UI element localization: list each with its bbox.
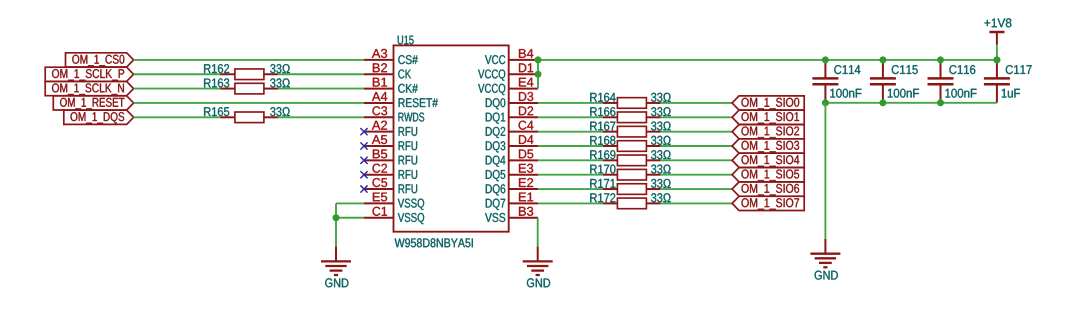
pin D5 DQ4 (right side)	[509, 159, 538, 161]
wire OM_1_CS0 to pin A3	[134, 59, 364, 61]
pin D1 VCCQ (right side)	[509, 73, 538, 75]
wire R163 to pin B1	[278, 88, 364, 90]
pin number A4	[372, 92, 387, 101]
resistor R164 33ohm	[603, 102, 618, 104]
wire +1V8 power to rail	[996, 45, 998, 60]
wire OM_1_SCLK_P to R162	[134, 73, 221, 75]
resistor R167 33ohm	[603, 131, 618, 133]
wire R169 to OM_1_SIO4	[660, 159, 732, 161]
pin number E4	[519, 78, 533, 87]
junction C116 top	[937, 56, 944, 63]
pin name CK	[398, 70, 411, 79]
pin D3 DQ0 (right side)	[509, 102, 538, 104]
wire OM_1_SCLK_N to R163	[134, 88, 221, 90]
pin number B5	[373, 150, 387, 159]
global label OM_1_SIO3	[523, 18, 1032, 287]
resistor R162 33ohm	[220, 73, 235, 75]
pin name CK#	[398, 84, 418, 93]
pin B5 RFU (left side)	[364, 159, 394, 161]
pin number C1	[373, 207, 388, 216]
global label OM_1_DQS	[64, 18, 1032, 287]
pin name DQ6	[486, 184, 506, 195]
wire +1V8 rail from VCC to capacitors	[538, 59, 997, 61]
global label OM_1_SIO1	[523, 18, 1032, 287]
global label OM_1_SIO0	[523, 18, 1032, 287]
wire DQ3 to R168	[538, 145, 603, 147]
resistor R166 33ohm	[603, 116, 618, 118]
resistor R165 33ohm	[220, 116, 235, 118]
capacitor C115 100nF	[882, 60, 884, 79]
pin name RFU	[399, 127, 418, 136]
pin C4 DQ2 (right side)	[509, 131, 538, 133]
pin name VCCQ	[478, 70, 505, 81]
wire R164 to OM_1_SIO0	[660, 102, 732, 104]
pin A2 RFU (left side)	[364, 131, 394, 133]
wire R166 to OM_1_SIO1	[660, 116, 732, 118]
pin number C5	[373, 178, 388, 187]
wire R168 to OM_1_SIO3	[660, 145, 732, 147]
pin B1 CK# (left side)	[364, 88, 394, 90]
junction VSSQ node	[333, 214, 340, 221]
wire OM_1_RESET to pin A4	[134, 102, 364, 104]
ground GND symbol under VSS	[537, 247, 539, 262]
junction at pin B4 VCC	[535, 56, 542, 63]
pin number A5	[372, 135, 387, 144]
pin name RFU	[399, 141, 418, 150]
wire R171 to OM_1_SIO6	[660, 188, 732, 190]
junction at pin D1 VCCQ	[535, 71, 542, 78]
pin name RWDS	[399, 113, 425, 122]
pin number E2	[519, 178, 533, 187]
pin A3 CS# (left side)	[364, 59, 394, 61]
global label OM_1_SIO2	[523, 18, 1032, 287]
pin name RFU	[399, 184, 418, 193]
pin C2 RFU (left side)	[364, 174, 394, 176]
junction C114 bottom	[822, 99, 829, 106]
global label OM_1_SIO6	[523, 18, 1032, 287]
pin number C3	[373, 106, 388, 115]
global label OM_1_SIO4	[523, 18, 1032, 287]
pin number A3	[372, 49, 387, 58]
pin number C2	[373, 164, 388, 173]
resistor R163 33ohm	[220, 88, 235, 90]
junction C115 top	[879, 56, 886, 63]
resistor R169 33ohm	[603, 159, 618, 161]
pin name DQ7	[486, 199, 505, 210]
wire DQ6 to R171	[538, 188, 603, 190]
resistor R172 33ohm	[603, 202, 618, 204]
pin C3 RWDS (left side)	[364, 116, 394, 118]
pin number D2	[519, 106, 533, 115]
wire capacitor bottom rail	[825, 102, 997, 104]
capacitor C116 100nF	[940, 60, 942, 79]
wire R172 to OM_1_SIO7	[660, 202, 732, 204]
pin E4 VCCQ (right side)	[509, 88, 538, 90]
pin number E1	[519, 193, 533, 202]
IC U15 body (W958D8NBYA5I)	[394, 45, 509, 231]
pin A5 RFU (left side)	[364, 145, 394, 147]
global label OM_1_CS0	[45, 18, 1031, 287]
pin number D5	[519, 150, 533, 159]
pin number E5	[373, 193, 387, 202]
pin name DQ4	[486, 156, 506, 167]
no-connect X on pin B5	[360, 157, 367, 164]
pin B3 VSS (right side)	[509, 217, 538, 219]
wire pin C1 VSSQ	[336, 217, 364, 219]
wire DQ4 to R169	[538, 159, 603, 161]
global label OM_1_SCLK_N	[45, 18, 1031, 287]
pin E1 DQ7 (right side)	[509, 202, 538, 204]
pin name VCC	[485, 55, 505, 64]
pin name CS#	[398, 55, 418, 64]
pin name RFU	[399, 156, 418, 165]
pin number D3	[519, 92, 533, 101]
pin name DQ2	[486, 127, 505, 138]
no-connect X on pin C5	[360, 185, 367, 192]
pin E2 DQ6 (right side)	[509, 188, 538, 190]
pin name DQ0	[486, 98, 506, 109]
pin E3 DQ5 (right side)	[509, 174, 538, 176]
wire VSSQ down to ground	[335, 203, 337, 246]
reference U15	[398, 36, 414, 45]
resistor R170 33ohm	[603, 174, 618, 176]
pin number B1	[373, 78, 387, 87]
pin name RESET#	[399, 98, 438, 107]
wire DQ1 to R166	[538, 116, 603, 118]
junction C116 bottom	[937, 99, 944, 106]
no-connect X on pin C2	[360, 171, 367, 178]
capacitor C117 1uF	[996, 60, 998, 79]
ground GND symbol under capacitors	[824, 239, 826, 254]
wire R170 to OM_1_SIO5	[660, 174, 732, 176]
capacitor C114 100nF	[824, 60, 826, 79]
wire R162 to pin B2	[278, 73, 364, 75]
pin D2 DQ1 (right side)	[509, 116, 538, 118]
pin number D1	[519, 63, 533, 72]
resistor R168 33ohm	[603, 145, 618, 147]
pin B2 CK (left side)	[364, 73, 394, 75]
wire VCC to VCCQ pins	[537, 60, 539, 89]
pin number B2	[373, 63, 387, 72]
pin C5 RFU (left side)	[364, 188, 394, 190]
pin name DQ3	[486, 141, 506, 152]
pin name VSSQ	[398, 199, 424, 210]
global label OM_1_SIO5	[523, 18, 1032, 287]
junction C115 bottom	[879, 99, 886, 106]
pin name DQ5	[486, 170, 506, 181]
no-connect X on pin A2	[360, 128, 367, 135]
wire DQ0 to R164	[538, 102, 603, 104]
pin D4 DQ3 (right side)	[509, 145, 538, 147]
ground GND symbol under VSSQ	[335, 247, 337, 262]
global label OM_1_SCLK_P	[45, 18, 1031, 287]
pin number A2	[372, 121, 387, 130]
global label OM_1_RESET	[53, 18, 1031, 287]
wire R167 to OM_1_SIO2	[660, 131, 732, 133]
pin number C4	[519, 121, 534, 130]
wire OM_1_DQS to R165	[134, 116, 221, 118]
value W958D8NBYA5I	[395, 238, 473, 247]
pin number E3	[519, 164, 533, 173]
pin C1 VSSQ (left side)	[364, 217, 394, 219]
pin name DQ1	[486, 113, 505, 124]
pin number B4	[519, 49, 533, 58]
pin name RFU	[399, 170, 418, 179]
pin number B3	[519, 207, 533, 216]
pin B4 VCC (right side)	[509, 59, 538, 61]
power symbol +1V8	[996, 32, 998, 45]
pin name VSS	[485, 213, 505, 222]
resistor R171 33ohm	[603, 188, 618, 190]
wire R165 to pin C3	[278, 116, 364, 118]
wire DQ2 to R167	[538, 131, 603, 133]
pin name VSSQ	[398, 213, 424, 224]
no-connect X on pin A5	[360, 142, 367, 149]
junction +1V8 node	[993, 56, 1000, 63]
junction C117 top	[993, 56, 1000, 63]
pin name VCCQ	[478, 84, 505, 95]
wire VSS B3 down to ground	[537, 218, 539, 247]
wire DQ7 to R172	[538, 202, 603, 204]
wire pin E5 VSSQ	[336, 202, 364, 204]
wire capacitor rail down to ground	[824, 103, 826, 239]
global label OM_1_SIO7	[523, 18, 1032, 287]
junction C114 top	[822, 56, 829, 63]
pin A4 RESET# (left side)	[364, 102, 394, 104]
pin number D4	[519, 135, 533, 144]
wire DQ5 to R170	[538, 174, 603, 176]
pin E5 VSSQ (left side)	[364, 202, 394, 204]
